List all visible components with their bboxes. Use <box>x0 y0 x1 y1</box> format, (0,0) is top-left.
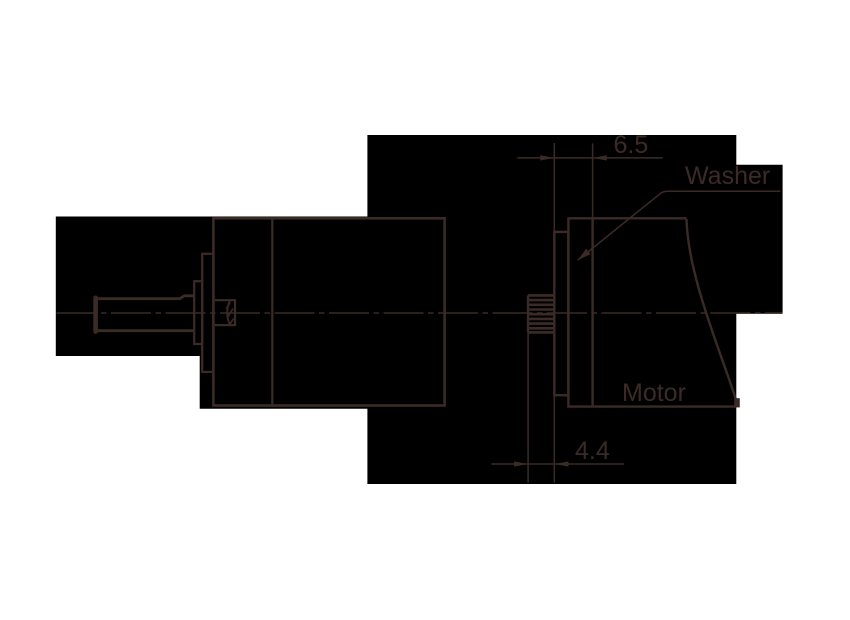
svg-text:6.5: 6.5 <box>614 131 649 159</box>
dimension 4.4: extension line left (pinion face extended) <box>527 332 529 482</box>
dimension 4.4: dimension line <box>491 463 624 465</box>
black background staircase region <box>56 135 783 484</box>
dimension 6.5: extension line right (motor face) <box>592 143 594 218</box>
svg-text:4.4: 4.4 <box>575 437 610 465</box>
washer <box>554 232 568 395</box>
dimension 6.5: right arrowhead <box>593 155 607 160</box>
screw drive arc <box>227 301 230 325</box>
gearbox housing outline <box>213 218 444 405</box>
motor front face line <box>591 218 593 406</box>
dimension 4.4: left arrowhead <box>514 461 528 466</box>
dimension 4.4: extension line right (washer face extended) <box>553 395 555 482</box>
svg-text:Washer: Washer <box>685 162 770 190</box>
screw drive hatch lines <box>226 302 233 325</box>
screw head outline <box>215 300 235 325</box>
motor right broken-edge curve <box>687 219 738 403</box>
motor body outline (top, left, bottom) <box>568 218 736 406</box>
output shaft end cap <box>93 298 98 332</box>
knurled pinion body stripes <box>528 295 554 332</box>
centerline (dash-dot axis) <box>57 312 783 314</box>
washer leader arrowhead <box>578 249 591 261</box>
dimension 6.5: extension line left (washer left face) <box>553 143 555 232</box>
output shaft D-flat top edge <box>95 296 195 299</box>
motor curve end cap <box>734 398 740 407</box>
dimension 4.4: right arrowhead <box>554 461 568 466</box>
gearbox end plate <box>202 254 213 372</box>
svg-text:Motor: Motor <box>622 379 686 407</box>
pinion left face <box>527 295 529 332</box>
dimension 6.5: dimension line <box>517 157 662 159</box>
washer leader line <box>578 191 781 260</box>
dimension 6.5: left arrowhead <box>540 155 554 160</box>
output shaft bottom edge <box>95 329 195 332</box>
bushing flange <box>194 281 202 344</box>
gearbox internal plate line <box>271 218 273 405</box>
